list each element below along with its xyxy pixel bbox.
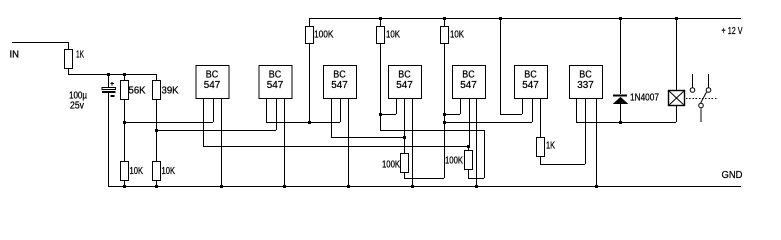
wire rail drop to Q6 collector [500, 114, 522, 116]
node junction dot Q4 emitter [411, 185, 414, 188]
wire Q1 emitter lead [221, 98, 223, 186]
svg-text:1K: 1K [76, 50, 84, 61]
svg-text:100K: 100K [445, 156, 463, 167]
resistor R2 56K bias upper [124, 74, 126, 80]
resistor R9 100K Q4 base pulldown [404, 137, 406, 153]
svg-text:10K: 10K [130, 166, 144, 177]
wire Q7 emitter lead [596, 98, 598, 186]
resistor R3 39K bias upper [156, 74, 158, 80]
svg-text:56K: 56K [129, 86, 146, 97]
transistor Q1 BC547 [196, 66, 229, 99]
wire 10K b lead down long [444, 43, 446, 178]
wire Q6 emitter lead to 1K [540, 98, 542, 137]
svg-text:10K: 10K [162, 166, 176, 177]
svg-text:GND: GND [722, 170, 743, 181]
wire capacitor negative lead down to ground rail [108, 93, 110, 186]
svg-text:BC: BC [524, 70, 537, 81]
wire Q5 base lead [469, 98, 471, 146]
node junction dot Q7 emitter [595, 185, 598, 188]
wire diode cathode lead from rail [620, 18, 622, 94]
wire 100K b bottom stub to riser [468, 178, 484, 180]
wire Q4 base lead [404, 98, 406, 137]
node junction dot rail 10K b [443, 17, 446, 20]
svg-text:337: 337 [577, 80, 594, 91]
transistor Q6 BC547 [515, 66, 548, 99]
node junction dot diode anode [619, 121, 622, 124]
node junction dot Q1 emitter [220, 185, 223, 188]
transistor Q5 BC547 [453, 66, 486, 99]
svg-text:100K: 100K [382, 160, 400, 171]
node junction dot B on 10K b lead [443, 121, 446, 124]
relay contact movable blade [701, 92, 707, 103]
transistor Q7 BC337 output [570, 66, 603, 99]
node junction dot 10K to Q4 collector wire [379, 113, 382, 116]
node junction dot A on 10K b lead [443, 113, 446, 116]
wire input rail [68, 74, 157, 76]
wire 56K lead down through node to lower 10K [124, 99, 126, 161]
svg-text:BC: BC [579, 70, 592, 81]
svg-text:39K: 39K [162, 86, 179, 97]
relay contact common terminal [699, 103, 704, 108]
svg-text:547: 547 [460, 80, 477, 91]
node junction dot Q4 base 100K top [403, 136, 406, 139]
resistor R10 100K Q5 base network [468, 146, 470, 150]
wire Q4 collector lead [396, 98, 398, 114]
svg-text:1K: 1K [546, 141, 555, 152]
wire Q2 base lead [276, 98, 278, 130]
wire node B to Q6 base [444, 122, 532, 124]
svg-text:547: 547 [522, 80, 539, 91]
resistor R1 1K input series [68, 42, 70, 49]
relay contact fixed terminal left [692, 74, 694, 88]
resistor R7 10K collector load Q4 [380, 18, 382, 26]
wire 39K lead down through node to lower 10K [156, 99, 158, 161]
svg-text:BC: BC [206, 70, 219, 81]
wire Q1 collector long wire to Q5 base node [203, 146, 468, 148]
node junction dot 10K divider left [123, 185, 126, 188]
svg-text:+ 12 V: + 12 V [722, 26, 743, 37]
wire Q3 collector lead [331, 98, 333, 137]
node junction dot rail 10K a [379, 17, 382, 20]
svg-text:100K: 100K [314, 30, 334, 41]
wire 100K a bottom stub to riser [404, 178, 444, 180]
wire Q5 emitter lead [476, 98, 478, 186]
wire +12V supply rail [309, 18, 741, 20]
wire Q1 base wire from divider [124, 122, 213, 124]
node junction dot Q5 emitter [475, 185, 478, 188]
node junction dot rail relay coil [675, 17, 678, 20]
svg-text:547: 547 [267, 80, 284, 91]
wire Q6 collector drop from rail [500, 18, 502, 114]
relay contact fixed terminal right [708, 74, 710, 88]
svg-text:10K: 10K [386, 30, 400, 41]
svg-text:BC: BC [269, 70, 282, 81]
wire Q2 collector lead [266, 98, 268, 122]
svg-text:25v: 25v [70, 101, 84, 112]
wire 100K lead down to Q2 collector node [309, 43, 311, 122]
resistor R5 10K lower divider right [153, 162, 161, 181]
wire Q3 base lead [340, 98, 342, 122]
node junction dot cap [107, 73, 110, 76]
wire Q4 collector to 10K node [380, 114, 396, 116]
wire relay coil top lead from rail [676, 18, 678, 90]
node junction dot Q3 emitter [347, 185, 350, 188]
wire Q1 base lead [213, 98, 215, 122]
node junction dot 10K divider right [155, 185, 158, 188]
wire Q6 collector lead [522, 98, 524, 114]
wire 10K lead down [380, 43, 382, 130]
wire 10K a lead to 100K b bottom riser [380, 130, 484, 132]
svg-text:10K: 10K [450, 30, 464, 41]
node junction dot 100K to collector wire [308, 121, 311, 124]
wire Q3 emitter lead [348, 98, 350, 186]
capacitor C1 100u 25v electrolytic [108, 74, 110, 87]
node junction dot 56K [123, 73, 126, 76]
svg-text:BC: BC [398, 70, 411, 81]
wire Q6 base lead [532, 98, 534, 122]
node junction dot Q5 base 100K top [467, 145, 470, 148]
relay contact linkage dashed line [686, 98, 717, 100]
svg-text:547: 547 [396, 80, 413, 91]
wire 1K bottom to Q7 base [540, 164, 585, 166]
resistor R4 10K lower divider left [121, 162, 129, 181]
wire relay coil bottom lead [676, 105, 678, 122]
wire Q3 collector to Q4 base node [331, 137, 404, 139]
resistor R6 100K collector load Q2 [309, 18, 311, 26]
node junction dot rail Q6 collector drop [499, 17, 502, 20]
wire Q4 emitter lead [412, 98, 414, 186]
wire node A to Q5 collector [444, 114, 460, 116]
node junction dot rail diode [619, 17, 622, 20]
wire Q2 base wire from divider [156, 130, 276, 132]
wire Q5 collector lead [460, 98, 462, 114]
wire riser down to 100K b bottom [484, 130, 486, 178]
wire Q7 base lead [585, 98, 587, 164]
wire Q7 collector to diode and relay [576, 122, 676, 124]
node junction dot Q2 emitter [283, 185, 286, 188]
svg-text:547: 547 [331, 80, 348, 91]
relay K1 coil box [669, 91, 685, 106]
svg-text:IN: IN [10, 50, 20, 61]
svg-text:BC: BC [462, 70, 475, 81]
wire GND rail [108, 186, 741, 188]
svg-text:1N4007: 1N4007 [630, 93, 659, 104]
resistor R8 10K collector load Q5 [444, 18, 446, 26]
wire Q2 collector to Q3 base [266, 122, 340, 124]
node junction dot 39K-10K divider to Q2 base [155, 129, 158, 132]
wire Q2 emitter lead [284, 98, 286, 186]
wire Q7 collector lead [576, 98, 578, 122]
node IN terminal and input wire [12, 42, 68, 44]
svg-text:547: 547 [204, 80, 221, 91]
diode D1 1N4007 flyback [613, 95, 627, 97]
wire Q1 collector lead [203, 98, 205, 146]
transistor Q3 BC547 [324, 66, 357, 99]
transistor Q4 BC547 [389, 66, 422, 99]
resistor R11 1K Q7 base series [537, 138, 545, 157]
svg-text:BC: BC [333, 70, 346, 81]
transistor Q2 BC547 [259, 66, 292, 99]
node junction dot 56K-10K divider to Q1 base [123, 121, 126, 124]
